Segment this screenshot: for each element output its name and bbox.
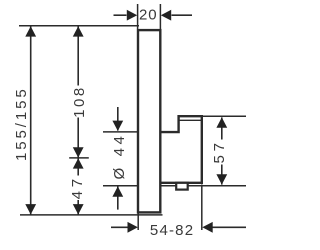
wall extension line bottom (20, 214, 163, 216)
svg-text:108: 108 (71, 85, 88, 118)
arrowhead 54-82 right (202, 222, 212, 233)
dimension line phi44 top tail (117, 107, 119, 131)
svg-text:47: 47 (69, 175, 86, 199)
dimension line 54-82 left tail (111, 226, 128, 228)
extension line 20 left (137, 4, 139, 29)
extension line 57 top (203, 115, 246, 117)
tick 108/47 junction (69, 157, 89, 159)
svg-text:20: 20 (139, 7, 157, 24)
arrowhead 155/155 top (25, 26, 36, 36)
handle bottom notch (176, 183, 188, 190)
arrowhead 57 bottom (216, 174, 227, 184)
svg-text:54-82: 54-82 (150, 222, 194, 239)
handle body outline (160, 116, 202, 183)
dimension line 155/155 (30, 26, 32, 214)
dimension line 20 left tail (114, 14, 127, 16)
extension line phi44 top (103, 131, 138, 133)
wall extension line top (19, 25, 139, 27)
extension line 54-82 right (201, 185, 203, 231)
arrowhead phi44 top (112, 121, 123, 131)
svg-text:Ø 44: Ø 44 (111, 133, 128, 180)
arrowhead 20 left (127, 10, 137, 21)
arrowhead 108 top (73, 26, 84, 36)
arrowhead 155/155 bottom (25, 204, 36, 214)
dimension line 108 (77, 26, 79, 85)
dimension line 20 right tail (172, 14, 193, 16)
dimension line 54-82 right tail (213, 226, 247, 228)
arrowhead 57 top (216, 117, 227, 127)
extension line 54-82 left (137, 213, 139, 230)
arrowhead 54-82 left (128, 222, 138, 233)
arrowhead 108 bottom (73, 147, 84, 157)
arrowhead 47 bottom (73, 204, 84, 214)
handle cap inner line (179, 119, 202, 121)
dimension line 57 (221, 117, 223, 139)
extension line 20 right (159, 4, 161, 29)
extension line 57 bottom mid (161, 185, 246, 187)
arrowhead 20 right (161, 10, 171, 21)
svg-text:155/155: 155/155 (13, 86, 30, 161)
extension line phi44/57 bottom left (103, 185, 138, 187)
arrowhead 47 top (73, 158, 84, 168)
arrowhead phi44 bottom (112, 186, 123, 196)
plate outline (faceplate side view) (138, 30, 160, 212)
svg-text:57: 57 (211, 139, 228, 163)
dimension line 47 (77, 158, 79, 176)
dimension line phi44 bottom tail (117, 187, 119, 210)
